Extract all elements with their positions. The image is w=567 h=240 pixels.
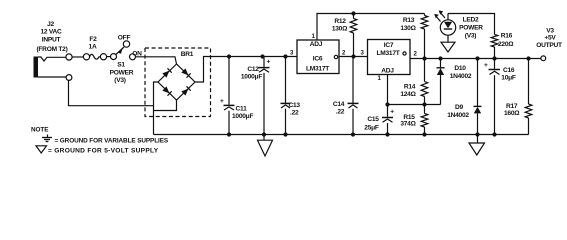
wire bridge left corner down to ground rail [154,82,159,135]
bridge diamond edges [158,64,195,100]
svg-text:= GROUND FOR 5-VOLT SUPPLY: = GROUND FOR 5-VOLT SUPPLY [48,148,159,155]
wire down and right to AC node [69,80,154,105]
resistor R17 [525,59,532,135]
svg-text:S1: S1 [117,62,125,69]
label R14 124ohm [400,84,416,99]
bridge diode bottom-right [181,86,190,95]
wire IC6 out to IC7 in [339,56,368,58]
svg-text:R14: R14 [404,84,416,91]
svg-text:= GROUND FOR VARIABLE SUPPLIES: = GROUND FOR VARIABLE SUPPLIES [55,138,169,145]
connector J2 [34,57,39,78]
IC7 regulator LM317T [368,40,411,75]
capacitor C16 [489,59,501,135]
diode D10 1N4002 [437,59,445,105]
svg-text:C15: C15 [367,116,379,123]
label J2 12 VAC INPUT (FROM T2) [36,21,67,53]
capacitor C14 [348,57,359,135]
ground for 5-volt supply (open triangle under LED2) [441,42,455,52]
svg-text:1N4002: 1N4002 [450,73,472,80]
wire plug to fuse [72,56,83,58]
wire main rail BR1 to IC6 [212,56,298,58]
output terminal V3 [541,56,546,61]
svg-text:+: + [220,98,224,105]
wire bottom ground rail [154,134,529,136]
svg-text:374Ω: 374Ω [400,121,416,128]
diode D9 1N4002 [474,59,482,135]
svg-text:F2: F2 [89,36,97,43]
wire J2 bottom to contact [38,76,66,78]
note legend [31,127,169,155]
svg-text:LED2: LED2 [463,16,479,23]
ground for variable supplies (open triangle under C12) [258,135,273,157]
svg-text:3: 3 [361,50,365,57]
svg-text:160Ω: 160Ω [504,110,520,117]
svg-text:ADJ: ADJ [310,41,323,48]
label IC6 [306,41,329,73]
svg-text:124Ω: 124Ω [400,91,416,98]
svg-text:2: 2 [414,51,418,58]
resistor R16 [491,35,498,59]
svg-text:LM317T: LM317T [376,50,399,57]
svg-text:+5V: +5V [544,35,556,42]
svg-text:1: 1 [312,33,316,40]
label D9 1N4002 [447,104,469,119]
label C16 10uF [484,62,516,82]
svg-text:IC7: IC7 [384,42,394,49]
svg-text:R12: R12 [334,18,346,25]
bridge diode top-right [181,68,190,77]
svg-text:1000μF: 1000μF [232,113,253,120]
IC6 output marker circle [334,55,337,58]
svg-text:1: 1 [378,75,382,82]
label R17 160ohm [504,103,520,117]
label C11 1000uF [220,98,253,120]
wire J2 top to plug [38,57,66,61]
svg-text:D9: D9 [455,104,464,111]
svg-text:+: + [484,62,488,69]
svg-text:130Ω: 130Ω [332,26,348,33]
svg-text:POWER: POWER [110,70,134,77]
wire fuse to switch [107,56,111,58]
label C12 1000uF [241,59,271,81]
wire IC6 adj riser and top wire [317,14,425,41]
label R16 220ohm [498,33,514,49]
svg-text:POWER: POWER [459,25,483,32]
svg-text:NOTE: NOTE [31,127,49,134]
ground for 5-volt supply (open triangle under D9) [469,135,485,156]
note earth ground symbol [42,135,52,142]
wire bridge right corner to rail [195,57,212,83]
svg-text:IC6: IC6 [313,56,323,63]
label V3 +5V OUTPUT [536,28,562,50]
svg-text:OUTPUT: OUTPUT [536,42,562,49]
capacitor C13 [281,57,291,135]
label F2 1A [89,36,98,51]
svg-text:BR1: BR1 [181,51,194,58]
label LED2 POWER (V3) [459,16,483,39]
svg-text:1N4002: 1N4002 [447,112,469,119]
label C13 .22 [289,102,301,117]
capacitor C15 [382,105,393,135]
resistor R14 [421,59,428,105]
IC6 regulator LM317T [297,40,339,74]
junction node dots [227,11,531,136]
label R13 130ohm [400,17,416,32]
svg-text:R16: R16 [501,33,513,40]
svg-text:(V3): (V3) [465,33,477,40]
wire bridge bottom corner stub [154,100,177,111]
label C15 25uF [364,109,394,132]
svg-text:R13: R13 [403,17,415,24]
capacitor C12 [259,57,270,135]
LED2 power indicator [434,10,455,42]
svg-text:10μF: 10μF [501,75,516,82]
svg-text:25μF: 25μF [364,125,379,132]
plug contact circle [66,54,72,60]
svg-text:LM317T: LM317T [306,66,329,73]
fuse F2 [83,54,106,60]
resistor R15 [421,105,428,135]
note 5-volt ground symbol [36,146,47,153]
svg-text:C14: C14 [333,101,345,108]
svg-text:+: + [390,109,394,116]
svg-text:.22: .22 [290,110,299,117]
resistor R13 [421,14,428,59]
svg-text:J2: J2 [47,21,54,28]
svg-text:ADJ: ADJ [381,68,394,75]
label S1 POWER (V3) [110,62,134,85]
svg-text:R17: R17 [506,103,518,110]
svg-text:C11: C11 [236,106,248,113]
svg-text:1000μF: 1000μF [241,73,262,80]
svg-text:+: + [267,59,271,66]
circle J2 bottom contact [66,75,72,81]
bridge BR1 dashed box [145,48,211,117]
svg-text:V3: V3 [546,28,554,35]
label C14 .22 [333,101,345,116]
label R12 130ohm [332,18,348,33]
wire switch to bridge [136,57,177,64]
IC7 output marker circle [403,52,406,55]
svg-text:(V3): (V3) [114,77,126,84]
label IC7 [376,42,399,75]
svg-text:130Ω: 130Ω [400,25,416,32]
svg-text:3: 3 [290,50,294,57]
capacitor C11 [224,57,235,135]
label D10 1N4002 [450,65,472,80]
svg-text:C12: C12 [247,66,259,73]
svg-text:1A: 1A [89,44,97,51]
bridge diode bottom-left [162,86,171,95]
svg-text:C13: C13 [289,102,301,109]
svg-text:(FROM T2): (FROM T2) [36,46,67,53]
bridge diode top-left [162,68,171,77]
svg-text:INPUT: INPUT [42,37,61,44]
svg-text:C16: C16 [503,67,515,74]
svg-text:2: 2 [342,50,346,57]
svg-text:.22: .22 [336,109,345,116]
switch S1 [111,41,136,60]
wire LED top to R16 [448,14,495,35]
svg-text:12 VAC: 12 VAC [40,29,62,36]
resistor R12 [350,14,357,57]
svg-text:220Ω: 220Ω [498,41,514,48]
label R15 374ohm [400,114,416,128]
wire IC7 adj to divider [388,75,441,105]
svg-text:OFF: OFF [118,35,131,42]
wire IC7 out rail to output [410,58,541,60]
svg-text:D10: D10 [454,65,466,72]
